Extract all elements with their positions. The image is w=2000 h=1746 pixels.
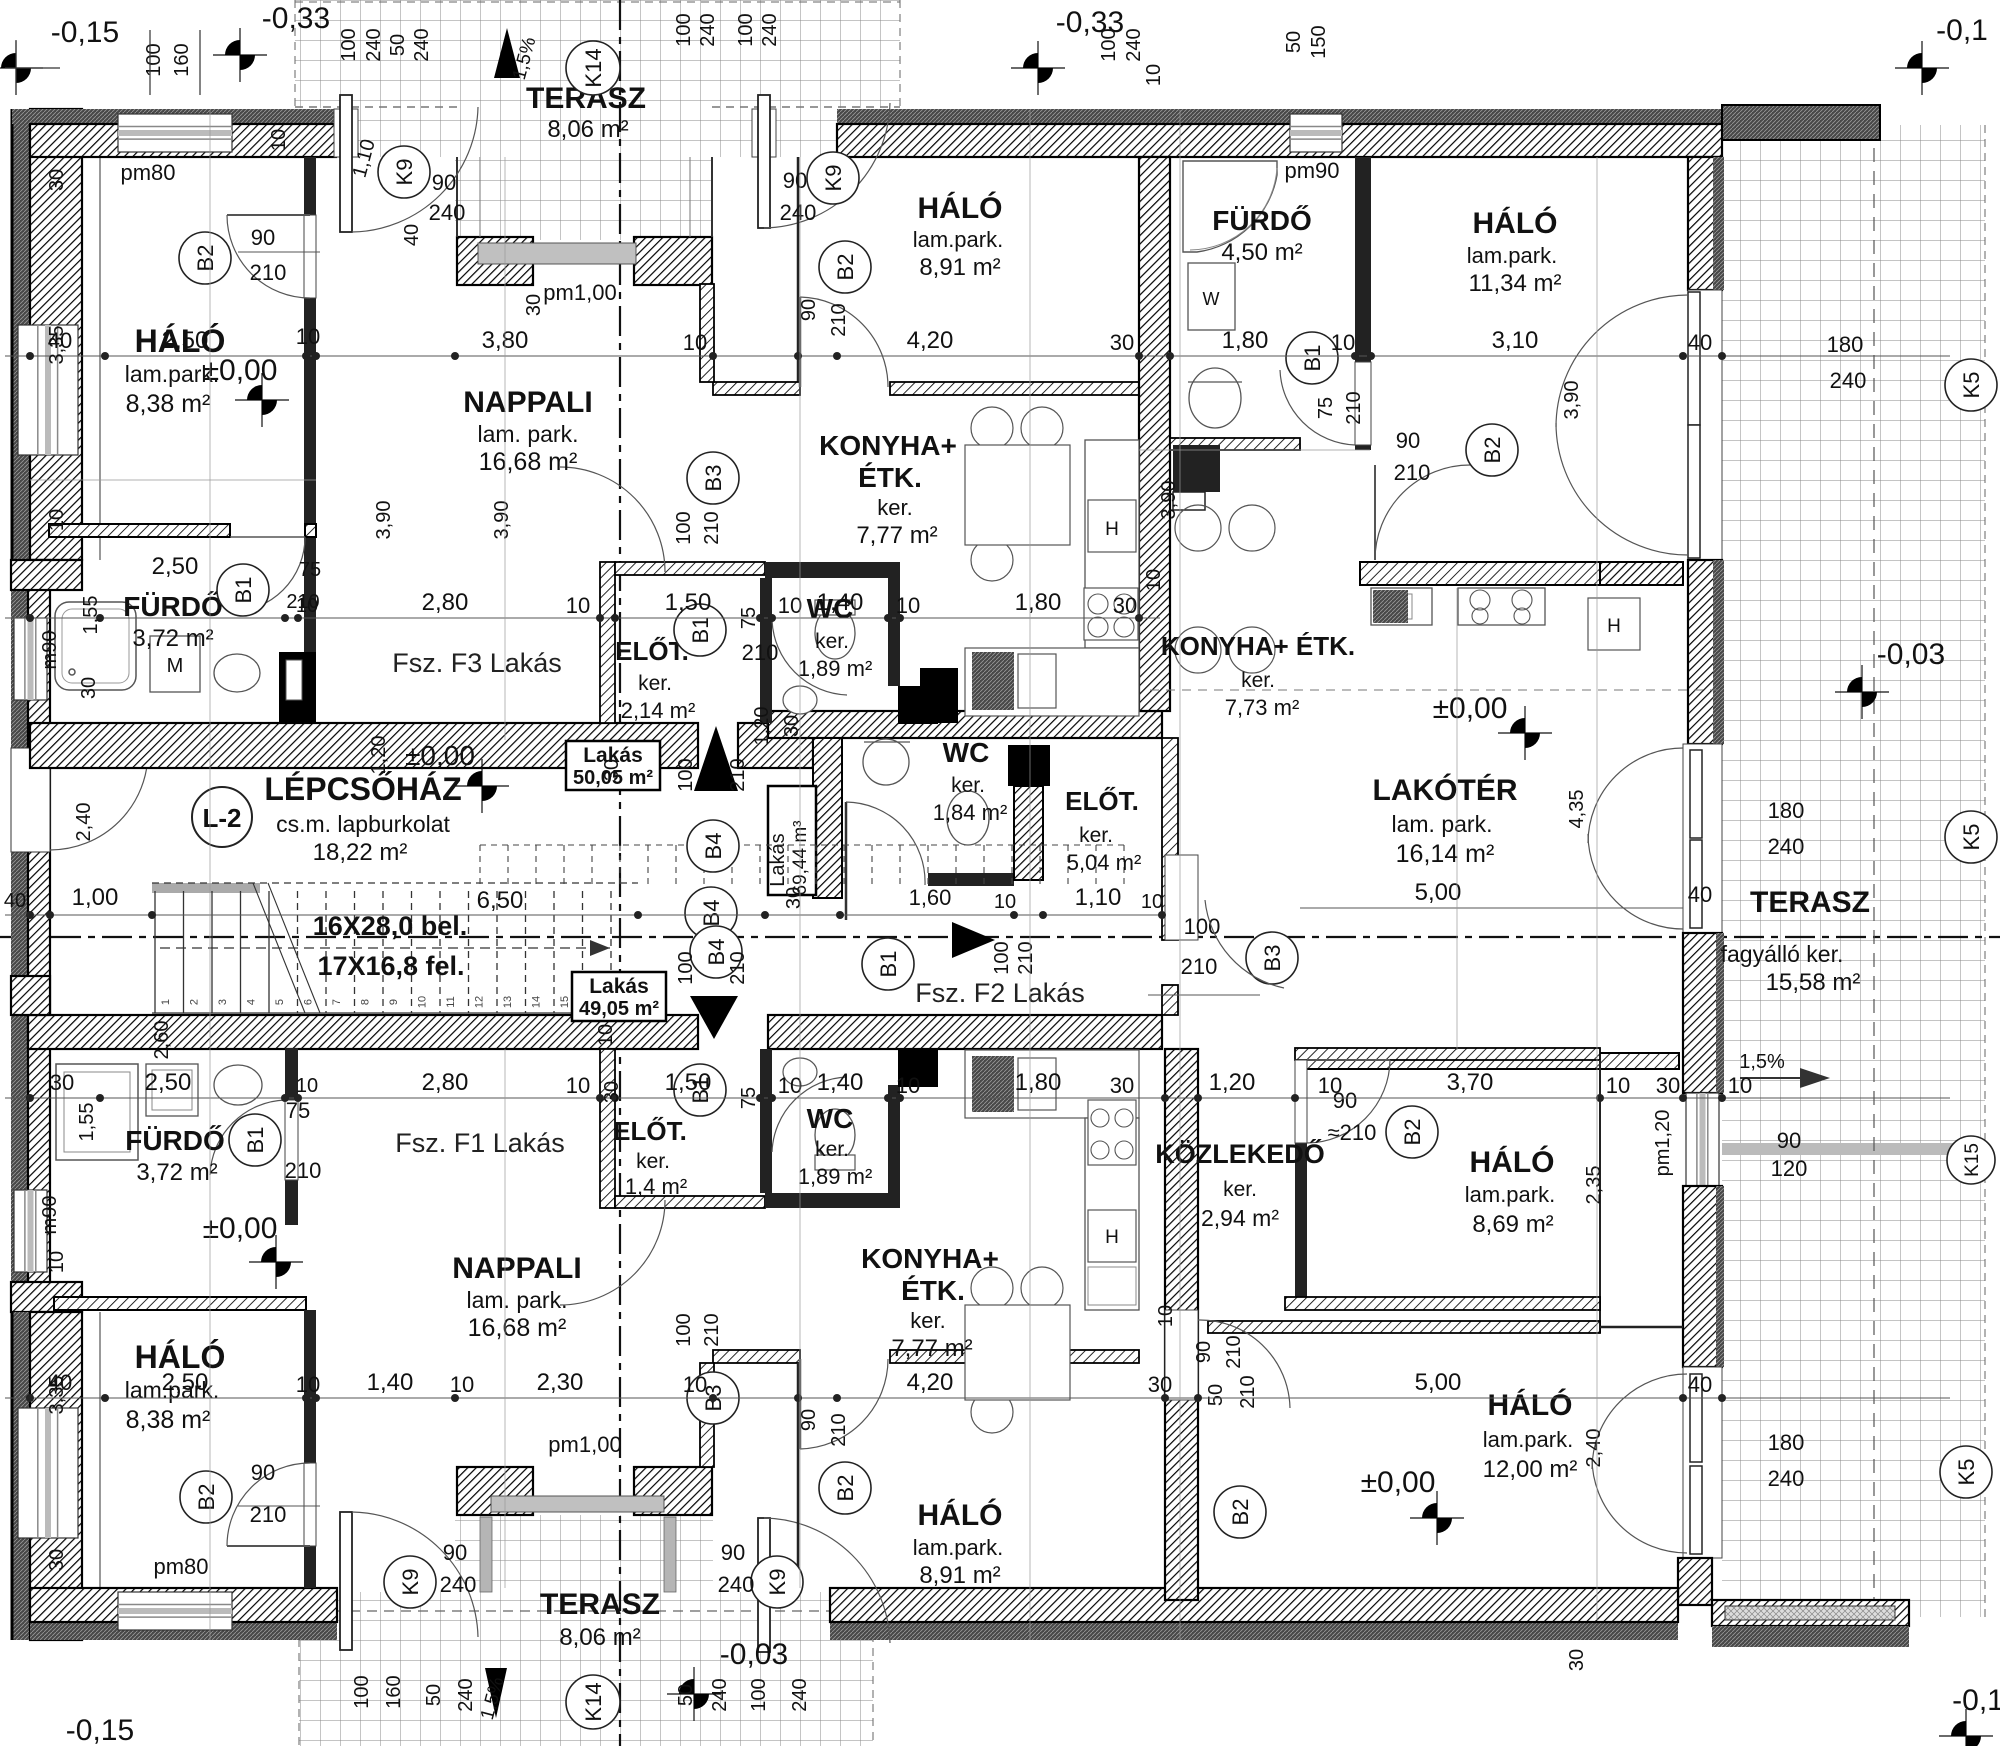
svg-text:1,60: 1,60 (909, 885, 952, 910)
svg-text:lam.park.: lam.park. (913, 1535, 1003, 1560)
shaft block wc F1 (898, 1049, 938, 1087)
upper stair flight dashed (480, 845, 1124, 885)
svg-text:30: 30 (1656, 1073, 1680, 1098)
party wall F1-F2 lower (1165, 1049, 1198, 1600)
svg-text:ker.: ker. (910, 1308, 945, 1333)
tag K9 bottom left (384, 1556, 436, 1608)
tag B2 háló F1 (180, 1471, 232, 1523)
svg-text:1,20: 1,20 (751, 707, 773, 746)
svg-text:10: 10 (595, 1024, 617, 1046)
svg-text:2,50: 2,50 (162, 1369, 209, 1396)
svg-text:ker.: ker. (815, 1138, 849, 1161)
entrance door gap left wall (11, 748, 50, 852)
svg-text:2,80: 2,80 (422, 1069, 469, 1096)
svg-text:1,5%: 1,5% (1739, 1051, 1785, 1073)
tag K14 top (566, 41, 620, 95)
wall háló8.38 bottom (49, 524, 230, 537)
svg-text:10: 10 (566, 593, 590, 618)
tag K14 bottom (566, 1675, 620, 1729)
door K9 left gap (334, 109, 358, 157)
outer wall bottom right (830, 1588, 1678, 1622)
svg-text:240: 240 (709, 1678, 731, 1711)
svg-text:NAPPALI: NAPPALI (452, 1252, 581, 1285)
svg-text:B1: B1 (876, 951, 901, 978)
svg-text:lam. park.: lam. park. (478, 421, 579, 447)
door K9 bottom-right leaf (758, 1518, 770, 1652)
svg-text:FÜRDŐ: FÜRDŐ (123, 591, 223, 622)
door K5 háló gap (1688, 290, 1722, 560)
shaft block wc F3 (898, 686, 938, 724)
svg-text:7: 7 (331, 999, 343, 1005)
svg-text:4,50 m²: 4,50 m² (1221, 239, 1302, 266)
lakás 50.05 box (566, 741, 660, 790)
svg-text:ker.: ker. (1223, 1178, 1257, 1201)
svg-text:W: W (1203, 289, 1220, 309)
reference line lakótér vertical (1456, 588, 1458, 1050)
svg-text:10: 10 (1606, 1073, 1630, 1098)
window sill strip on right terrace (1722, 1143, 1985, 1155)
wall előt F3 top (615, 562, 765, 575)
svg-text:lam.park.: lam.park. (1483, 1427, 1573, 1452)
svg-text:2,30: 2,30 (537, 1369, 584, 1396)
tag B1 fürdő F1 (229, 1114, 281, 1166)
svg-text:ker.: ker. (951, 774, 985, 797)
svg-text:lam. park.: lam. park. (1392, 811, 1493, 837)
tag K5 right mid (1945, 811, 1997, 863)
door B2 háló8.91 arc (800, 297, 888, 387)
svg-text:10: 10 (268, 129, 290, 151)
wall előt F3 left (600, 562, 615, 723)
outer wall bottom dark strip (30, 1622, 337, 1640)
svg-text:Lakás: Lakás (767, 833, 789, 886)
svg-text:KÖZLEKEDŐ: KÖZLEKEDŐ (1155, 1138, 1325, 1169)
terrace floor grid top-right (1722, 125, 1985, 1600)
svg-text:-0,15: -0,15 (66, 1714, 134, 1746)
window top wall A pm80 (118, 114, 232, 152)
door K9 right arc (764, 103, 890, 228)
svg-text:B4: B4 (699, 900, 724, 927)
svg-text:15: 15 (559, 996, 571, 1008)
svg-text:2,14 m²: 2,14 m² (621, 698, 696, 723)
door B2 közlekedő-háló12 arc (1198, 1320, 1290, 1408)
door K5 háló12 gap (1683, 1367, 1722, 1558)
svg-text:210: 210 (701, 1313, 723, 1346)
terrace grid right outline (1984, 125, 1986, 1617)
sink hatch F2 (1373, 590, 1408, 623)
step block left wall bottom (11, 1282, 82, 1312)
svg-text:210: 210 (701, 511, 723, 544)
wall háló8.69 left (1295, 1060, 1307, 1297)
svg-text:ker.: ker. (1079, 824, 1113, 847)
outer wall bottom left (30, 1588, 337, 1622)
tag K9 bottom right (751, 1556, 803, 1608)
svg-text:4,20: 4,20 (907, 1369, 954, 1396)
door B3 előt F1 arc (560, 1200, 665, 1305)
svg-text:10: 10 (296, 1372, 320, 1397)
svg-text:B2: B2 (193, 245, 218, 272)
lakás 49.05 box (572, 972, 666, 1021)
svg-text:1,80: 1,80 (1015, 589, 1062, 616)
svg-text:3,90: 3,90 (1561, 381, 1583, 420)
svg-text:240: 240 (440, 1572, 477, 1597)
svg-text:L-2: L-2 (203, 803, 242, 833)
svg-text:B2: B2 (1400, 1119, 1425, 1146)
svg-text:FÜRDŐ: FÜRDŐ (1212, 205, 1312, 236)
wall corridor top right segment (768, 711, 1162, 738)
svg-text:fagyálló ker.: fagyálló ker. (1721, 941, 1844, 967)
svg-text:HÁLÓ: HÁLÓ (1488, 1388, 1573, 1422)
svg-text:16,14 m²: 16,14 m² (1396, 840, 1495, 868)
svg-text:KONYHA+: KONYHA+ (819, 430, 957, 461)
svg-text:B2: B2 (833, 254, 858, 281)
svg-text:10: 10 (778, 1073, 802, 1098)
tag B2 F2 háló bottom (1466, 424, 1518, 476)
svg-text:TERASZ: TERASZ (540, 1588, 660, 1621)
partition fürdő F1 right (285, 1048, 298, 1225)
svg-text:3,72 m²: 3,72 m² (132, 625, 213, 652)
door K9 right gap (752, 109, 776, 157)
washing machine fürdő F3 (150, 636, 200, 692)
svg-text:-0,1: -0,1 (1952, 1684, 2000, 1717)
svg-text:HÁLÓ: HÁLÓ (918, 191, 1003, 225)
svg-text:3,72 m²: 3,72 m² (136, 1159, 217, 1186)
svg-text:4,35: 4,35 (1566, 790, 1588, 829)
svg-text:LÉPCSŐHÁZ: LÉPCSŐHÁZ (264, 771, 461, 807)
horizontal modular axis (0, 936, 2000, 938)
svg-text:10: 10 (683, 330, 707, 355)
svg-text:±0,00: ±0,00 (1433, 692, 1508, 725)
svg-text:±0,00: ±0,00 (405, 740, 475, 771)
svg-text:ELŐT.: ELŐT. (613, 1116, 687, 1146)
svg-text:10: 10 (778, 593, 802, 618)
bottom wall right extension (1712, 1600, 1909, 1626)
svg-text:2,94 m²: 2,94 m² (1201, 1205, 1279, 1231)
svg-text:2,50: 2,50 (145, 1069, 192, 1096)
svg-text:1,40: 1,40 (367, 1369, 414, 1396)
arrow slope bottom (485, 1668, 507, 1718)
svg-text:B1: B1 (688, 617, 713, 644)
tag K5 right bottom (1940, 1446, 1992, 1498)
svg-text:1,40: 1,40 (817, 589, 864, 616)
dining chairs F3 (971, 407, 1013, 449)
svg-text:pm1,00: pm1,00 (543, 280, 616, 305)
wall előt F1 left (600, 1049, 615, 1208)
svg-text:100: 100 (673, 13, 695, 46)
svg-text:6,50: 6,50 (477, 887, 524, 914)
svg-text:m90: m90 (39, 631, 61, 670)
svg-text:1,55: 1,55 (76, 1103, 98, 1142)
svg-text:-0,15: -0,15 (51, 16, 119, 49)
svg-text:90: 90 (1396, 428, 1420, 453)
toilet wc F2 (947, 791, 989, 845)
svg-text:±0,00: ±0,00 (1361, 1466, 1436, 1499)
svg-text:210: 210 (727, 951, 749, 984)
corner block bottom right (1678, 1558, 1712, 1605)
svg-text:K9: K9 (821, 165, 846, 192)
tag B1 wc F1 (674, 1064, 726, 1116)
svg-text:16,68 m²: 16,68 m² (479, 448, 578, 476)
svg-text:7,77 m²: 7,77 m² (856, 522, 937, 549)
svg-text:1: 1 (160, 999, 172, 1005)
terrace recess block bottom left (457, 1467, 533, 1515)
window 90-120 right wall (1686, 1093, 1719, 1186)
svg-text:90: 90 (1193, 1341, 1215, 1363)
svg-text:8: 8 (360, 999, 372, 1005)
svg-text:14: 14 (531, 996, 543, 1008)
lakás69.44 box (768, 786, 816, 895)
svg-text:10: 10 (1155, 1305, 1177, 1327)
svg-text:1,80: 1,80 (1222, 327, 1269, 354)
svg-text:50: 50 (387, 34, 409, 56)
svg-text:90: 90 (1777, 1128, 1801, 1153)
wall fürdő F2 bottom (1170, 438, 1300, 450)
svg-text:lam.park.: lam.park. (1467, 243, 1557, 268)
svg-text:30: 30 (50, 1070, 74, 1095)
svg-text:H: H (1607, 616, 1621, 637)
step block left wall top (11, 560, 82, 590)
wall wc F2 right (1014, 786, 1043, 880)
dim line y618 (5, 614, 1160, 622)
svg-text:10: 10 (1728, 1073, 1752, 1098)
svg-text:8,91 m²: 8,91 m² (919, 254, 1000, 281)
wall háló11.34 bottom (1360, 562, 1600, 585)
outer wall top B dark strip (837, 109, 1722, 124)
svg-text:10: 10 (1143, 569, 1165, 591)
svg-text:3,90: 3,90 (1158, 481, 1180, 520)
svg-text:2,50: 2,50 (152, 553, 199, 580)
svg-text:KONYHA+ ÉTK.: KONYHA+ ÉTK. (1161, 631, 1355, 661)
outer wall right lower b (1683, 1186, 1722, 1367)
svg-text:30: 30 (783, 887, 805, 909)
svg-text:30: 30 (1110, 330, 1134, 355)
svg-text:30: 30 (1110, 1073, 1134, 1098)
svg-text:1,50: 1,50 (665, 589, 712, 616)
wall háló8.69 top (1295, 1048, 1600, 1060)
door B1 wc F3 arc (772, 620, 847, 695)
svg-text:5,00: 5,00 (1415, 879, 1462, 906)
outer strip right wall lower b (1716, 1186, 1724, 1367)
svg-text:7,77 m²: 7,77 m² (891, 1335, 972, 1362)
tag B1 fürdő F2 (1286, 332, 1338, 384)
svg-text:TERASZ: TERASZ (1750, 886, 1870, 919)
wall háló8.91 F1 left jamb (797, 1363, 800, 1588)
svg-text:B1: B1 (231, 577, 256, 604)
tag B2 háló8.91 F1 (819, 1462, 871, 1514)
svg-text:90: 90 (798, 299, 820, 321)
terrace door sill bottom recess (491, 1496, 664, 1512)
svg-text:49,05 m²: 49,05 m² (579, 998, 659, 1020)
shower fürdő F2 (1183, 161, 1277, 252)
svg-text:10: 10 (296, 324, 320, 349)
outer strip right wall lower a (1716, 933, 1724, 1093)
corner block corridor left top (11, 976, 50, 1015)
arrow slope top (494, 28, 520, 78)
svg-text:3,35: 3,35 (46, 326, 68, 365)
svg-text:LAKÓTÉR: LAKÓTÉR (1373, 773, 1518, 807)
svg-text:B4: B4 (701, 833, 726, 860)
wall háló8.91 F1 top (713, 1350, 800, 1363)
svg-text:pm1,20: pm1,20 (1652, 1110, 1674, 1177)
svg-text:12: 12 (474, 996, 486, 1008)
svg-text:210: 210 (285, 1158, 322, 1183)
dim line y915 (5, 911, 1166, 919)
wall corridor top mid segment (738, 723, 813, 768)
svg-text:30: 30 (523, 294, 545, 316)
svg-text:±0,00: ±0,00 (203, 1212, 278, 1245)
svg-text:40: 40 (4, 890, 26, 912)
svg-text:100: 100 (673, 1313, 695, 1346)
svg-text:cs.m. lapburkolat: cs.m. lapburkolat (276, 811, 450, 837)
outer wall top A dark strip (12, 109, 336, 124)
washbasin wc F3 (783, 686, 817, 714)
entrance door leaf+arc staircase (50, 751, 148, 754)
wall wc F2 bottom (928, 873, 1014, 886)
svg-text:10: 10 (46, 1251, 68, 1273)
svg-text:B1: B1 (1300, 345, 1325, 372)
svg-text:ker.: ker. (877, 495, 912, 520)
svg-text:3,90: 3,90 (373, 501, 395, 540)
svg-text:B3: B3 (701, 465, 726, 492)
svg-text:210: 210 (828, 303, 850, 336)
svg-text:50: 50 (1205, 1384, 1227, 1406)
toilet wc F1 (815, 1109, 855, 1161)
reference lines horizontal (30, 479, 316, 481)
outer wall left middle (28, 560, 50, 1312)
washbasin fürdő F1 (214, 1065, 262, 1105)
svg-text:100: 100 (351, 1675, 373, 1708)
vertical dashed axis right terrace (1873, 125, 1875, 1617)
svg-text:90: 90 (443, 1540, 467, 1565)
svg-text:m90: m90 (39, 1196, 61, 1235)
svg-text:1,10: 1,10 (1075, 884, 1122, 911)
svg-text:30: 30 (46, 1549, 68, 1571)
svg-text:M: M (167, 655, 184, 677)
wall wc F1 (765, 1193, 900, 1208)
svg-text:11: 11 (445, 996, 457, 1007)
tag K15 right (1947, 1136, 1995, 1184)
svg-text:90: 90 (251, 1460, 275, 1485)
svg-text:75: 75 (1315, 397, 1337, 419)
dashed line lakótér (1150, 689, 1718, 691)
svg-text:150: 150 (1308, 25, 1330, 58)
label L-2 circle (192, 787, 252, 847)
rotated dim numbers (39, 25, 1605, 1711)
tag B3 előt F1 (687, 1372, 739, 1424)
tag B2 háló8.38 F3 (179, 232, 231, 284)
svg-text:16,68 m²: 16,68 m² (468, 1314, 567, 1342)
svg-text:75: 75 (299, 559, 321, 581)
svg-text:240: 240 (789, 1678, 811, 1711)
outer wall left upper outer strip (12, 109, 30, 560)
terrace recess block right (634, 237, 712, 285)
svg-text:100: 100 (675, 951, 697, 984)
kitchen row F2 (1371, 588, 1432, 625)
svg-text:30: 30 (78, 677, 100, 699)
shaft fürdő F3 corner (279, 652, 316, 722)
svg-text:40: 40 (1688, 882, 1712, 907)
svg-text:10: 10 (1143, 64, 1165, 86)
dim line y1398 (5, 1394, 1950, 1402)
svg-text:100: 100 (673, 511, 695, 544)
svg-text:8,06 m²: 8,06 m² (559, 1624, 640, 1651)
svg-text:H: H (1105, 519, 1119, 540)
svg-text:18,22 m²: 18,22 m² (313, 839, 408, 866)
door B3 előt F3 arc (560, 467, 665, 572)
svg-text:40: 40 (401, 224, 423, 246)
svg-text:240: 240 (429, 200, 466, 225)
tag B2 közlekedő bottom (1214, 1486, 1266, 1538)
svg-text:2,40: 2,40 (1583, 1429, 1605, 1468)
svg-text:210: 210 (1343, 391, 1365, 424)
svg-text:Lakás: Lakás (589, 975, 649, 998)
door B2 háló8.91 F1 arc (800, 1359, 888, 1449)
svg-text:30: 30 (601, 1081, 623, 1103)
svg-text:pm90: pm90 (1284, 158, 1339, 183)
svg-text:K5: K5 (1959, 824, 1984, 851)
outer wall top A (30, 124, 336, 157)
svg-text:240: 240 (455, 1678, 477, 1711)
stairs 16 steps (152, 883, 638, 1013)
tag B1 wc F3 (674, 604, 726, 656)
svg-text:30: 30 (1113, 593, 1137, 618)
svg-text:-0,1: -0,1 (1936, 14, 1988, 47)
wall lakótér bottom (1300, 1053, 1679, 1069)
svg-text:210: 210 (250, 260, 287, 285)
svg-text:17X16,8 fel.: 17X16,8 fel. (317, 951, 464, 981)
svg-text:10: 10 (417, 996, 429, 1008)
door B1 fürdő F2 arc (1280, 370, 1355, 445)
svg-text:8,38 m²: 8,38 m² (126, 1406, 211, 1434)
svg-text:pm80: pm80 (153, 1554, 208, 1579)
svg-text:1,55: 1,55 (80, 596, 102, 635)
svg-text:ker.: ker. (638, 672, 672, 695)
terrace recess block bottom right (634, 1467, 712, 1515)
terrace door reveal bars bottom (480, 1517, 492, 1592)
svg-text:40: 40 (1688, 330, 1712, 355)
tag B4 circles (687, 820, 739, 872)
svg-text:Fsz. F2 Lakás: Fsz. F2 Lakás (915, 978, 1085, 1008)
outer wall right upper a (1688, 157, 1722, 290)
svg-text:lam.park.: lam.park. (1465, 1182, 1555, 1207)
svg-text:±0,00: ±0,00 (203, 354, 278, 387)
svg-text:8,38 m²: 8,38 m² (126, 390, 211, 418)
svg-text:3,70: 3,70 (1447, 1069, 1494, 1096)
svg-text:160: 160 (383, 1675, 405, 1708)
svg-text:240: 240 (363, 28, 385, 61)
svg-text:240: 240 (411, 28, 433, 61)
svg-text:8,06 m²: 8,06 m² (547, 116, 628, 143)
svg-text:100: 100 (143, 43, 165, 76)
svg-text:K5: K5 (1959, 372, 1984, 399)
svg-text:4: 4 (246, 999, 258, 1005)
kitchen counter F3 (1085, 440, 1139, 648)
svg-text:-0,03: -0,03 (1877, 638, 1945, 671)
party wall F3-F2 upper (1139, 157, 1170, 711)
svg-text:100: 100 (675, 758, 697, 791)
wall háló8.91 left jamb (797, 157, 800, 382)
wall előt F1 bottom (615, 1196, 765, 1208)
party wall mid thin (1162, 738, 1178, 940)
door K9 bottom-left arc (352, 1512, 478, 1637)
svg-text:100: 100 (991, 941, 1013, 974)
svg-text:3,90: 3,90 (491, 501, 513, 540)
svg-text:pm1,00: pm1,00 (548, 1432, 621, 1457)
shower fürdő F3 (55, 602, 136, 690)
terrace floor grid right (1909, 1600, 1985, 1617)
svg-text:ÉTK.: ÉTK. (901, 1275, 965, 1306)
svg-text:30: 30 (601, 759, 623, 781)
outer wall right lower a (1683, 933, 1722, 1093)
